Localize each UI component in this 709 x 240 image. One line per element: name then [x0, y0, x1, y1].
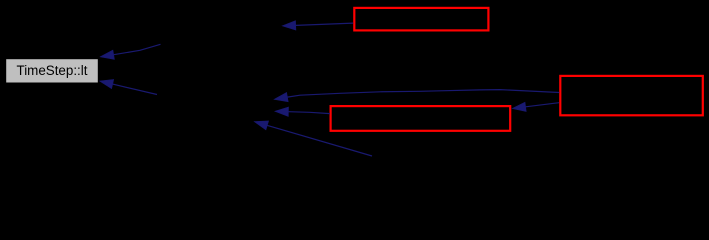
edge arrow into TimeStep::lt (lower)	[100, 80, 158, 95]
edge diagonal from hidden node to hidden node	[254, 121, 372, 156]
node box (red, truncated caller) middle	[331, 106, 511, 131]
node box (red, truncated caller) top	[354, 8, 488, 31]
edge from right red box to hidden node (long spline)	[274, 90, 559, 102]
edge arrow into TimeStep::lt (upper)	[100, 44, 160, 59]
caller-graph canvas	[0, 0, 709, 189]
edge from right red box to middle red box	[512, 102, 559, 111]
node TimeStep::lt (gray focus node)	[6, 59, 98, 82]
node box (red, truncated caller) right, two-line	[560, 76, 703, 115]
edge from top red box to hidden node	[282, 21, 353, 30]
edge from middle red box to hidden node	[275, 107, 330, 116]
svg-text:TimeStep::lt: TimeStep::lt	[17, 63, 88, 78]
